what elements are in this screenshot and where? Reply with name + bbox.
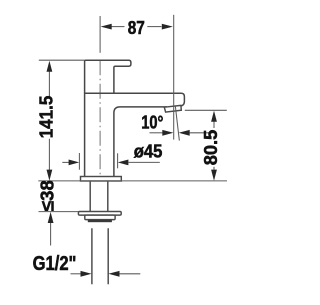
svg-text:80.5: 80.5: [200, 130, 221, 166]
dim G1/2: right arrow line: [119, 273, 140, 275]
dim dia45: right arrow line: [128, 161, 160, 163]
dim 10deg: right arrow: [179, 130, 190, 136]
inlet pipe: [92, 228, 108, 284]
dim dia45: right arrow: [118, 160, 129, 166]
svg-text:≤38: ≤38: [37, 180, 58, 211]
dim <=38: arrow tail: [50, 223, 52, 246]
dim 87: dimension line left part: [112, 26, 125, 28]
dim 10deg: left arrow: [162, 130, 173, 136]
svg-text:10°: 10°: [141, 112, 163, 133]
wire: vertical reference line at spout outlet: [173, 15, 175, 140]
dim G1/2: left arrow line: [71, 273, 82, 275]
dim dia45: text: [134, 141, 163, 162]
dim dia45: left arrow line: [62, 161, 69, 163]
dim 80.5: down arrow: [211, 170, 217, 181]
dim G1/2: right arrow: [108, 271, 119, 277]
water direction line (10 deg): [175, 106, 179, 140]
base flange: [81, 177, 122, 182]
dim dia45: left extension tick: [78, 153, 80, 170]
dim 10deg: right arrow line: [190, 132, 210, 134]
dim 87: right arrow: [162, 24, 173, 30]
gasket (dark): [88, 220, 112, 223]
dim dia45: left arrow: [69, 160, 80, 166]
dim 80.5: up arrow: [211, 111, 217, 122]
dim 141.5: down arrow: [47, 170, 53, 181]
dim 87: dimension line right part: [147, 26, 161, 28]
dim G1/2: left arrow: [81, 271, 92, 277]
wire: extension line from centerline to 87 dim: [99, 16, 101, 53]
nut step: [85, 215, 115, 220]
faucet spout top edge: [85, 93, 185, 106]
dim 80.5: dimension line: [213, 121, 215, 170]
svg-text:87: 87: [128, 18, 145, 39]
dim G1/2: text: [33, 251, 77, 274]
svg-text:141.5: 141.5: [36, 96, 57, 139]
dim 87: left arrow: [101, 24, 112, 30]
dim 10deg: left arrow line: [150, 132, 163, 134]
dim 87: text: [128, 18, 145, 39]
faucet handle and body outline: [85, 60, 131, 176]
dim 141.5: top extension line: [39, 59, 85, 61]
locknut plate: [78, 212, 121, 216]
dim dia45: right extension tick: [117, 153, 119, 168]
dim 10deg: text: [141, 112, 163, 133]
centerline (dash-dot): [99, 60, 101, 177]
svg-text:G1/2": G1/2": [33, 251, 77, 274]
svg-text:ø45: ø45: [134, 141, 163, 162]
dim 141.5: up arrow: [47, 61, 53, 72]
dim 80.5: outlet extension line: [185, 109, 227, 111]
faucet spout underside and column right edge: [114, 107, 167, 177]
dim <=38: up arrow below plate line: [48, 212, 54, 223]
threaded shank: [90, 181, 108, 212]
aerator: [164, 105, 181, 112]
dim 141.5: dimension line: [48, 70, 50, 170]
deck line: [38, 180, 227, 182]
dim <=38: plate extension line: [39, 211, 79, 213]
